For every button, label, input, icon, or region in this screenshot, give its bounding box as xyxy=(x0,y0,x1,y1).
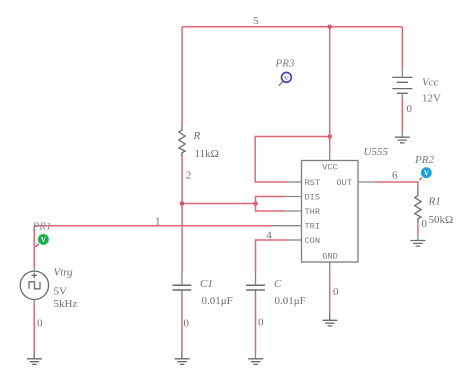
probe PR2 xyxy=(419,167,431,180)
wire source top xyxy=(33,226,35,267)
svg-text:50kΩ: 50kΩ xyxy=(429,214,454,226)
wire Vtrg bottom xyxy=(33,300,35,305)
ground under C xyxy=(248,359,263,365)
capacitor C1 xyxy=(173,272,192,295)
ground under chip xyxy=(322,314,337,326)
svg-text:12V: 12V xyxy=(422,93,441,105)
svg-text:PR2: PR2 xyxy=(414,154,434,166)
svg-text:1: 1 xyxy=(155,216,161,228)
wire VCC vertical xyxy=(329,27,331,151)
svg-text:0: 0 xyxy=(333,286,339,298)
svg-text:CON: CON xyxy=(305,236,320,246)
wire C bottom xyxy=(255,295,257,353)
pin VCC stub xyxy=(329,151,331,161)
svg-text:PR3: PR3 xyxy=(275,58,295,70)
pin RST stub xyxy=(286,181,302,183)
svg-text:0: 0 xyxy=(422,218,428,230)
svg-text:C1: C1 xyxy=(200,278,213,290)
wire battery bottom xyxy=(401,93,403,98)
wire DIS-THR tie xyxy=(256,197,285,212)
svg-text:5kHz: 5kHz xyxy=(54,298,78,310)
svg-text:DIS: DIS xyxy=(305,192,320,202)
svg-text:5V: 5V xyxy=(54,286,68,298)
wire C1 bottom xyxy=(181,295,183,353)
pin DIS stub xyxy=(284,196,302,198)
resistor R xyxy=(179,126,185,157)
svg-text:4: 4 xyxy=(266,230,272,242)
svg-text:RST: RST xyxy=(305,178,320,188)
svg-text:Vcc: Vcc xyxy=(422,77,439,89)
ground under battery xyxy=(395,137,410,143)
probe PR1 xyxy=(35,233,50,247)
svg-text:0: 0 xyxy=(184,318,190,330)
svg-text:U555: U555 xyxy=(364,146,389,158)
junction net5 top xyxy=(327,25,332,30)
ground under C1 xyxy=(175,352,190,364)
svg-text:VCC: VCC xyxy=(322,163,337,173)
wire chip GND to ground xyxy=(329,272,331,315)
pin TRI stub xyxy=(272,225,302,227)
svg-text:11kΩ: 11kΩ xyxy=(195,148,219,160)
capacitor C xyxy=(246,272,265,295)
svg-text:5: 5 xyxy=(253,15,259,27)
svg-text:OUT: OUT xyxy=(337,178,352,188)
probe PR3 xyxy=(279,72,292,85)
wire CON branch xyxy=(256,240,288,272)
wire node2 down to C1 xyxy=(181,204,183,273)
svg-text:0.01μF: 0.01μF xyxy=(275,295,306,307)
pin OUT stub xyxy=(358,181,375,183)
pin CON stub xyxy=(286,239,302,241)
svg-text:2: 2 xyxy=(186,170,192,182)
wire R1 to ground xyxy=(417,223,419,234)
svg-text:R1: R1 xyxy=(428,196,441,208)
svg-text:THR: THR xyxy=(305,207,320,217)
svg-text:V: V xyxy=(41,236,47,244)
wire battery top xyxy=(401,27,403,68)
svg-text:TRI: TRI xyxy=(305,221,320,231)
junction node2 left xyxy=(180,201,185,206)
wire RST branch xyxy=(255,137,330,183)
wire left vertical to resistor R xyxy=(181,27,183,126)
svg-text:V: V xyxy=(424,169,430,177)
svg-text:R: R xyxy=(193,130,201,142)
voltage source Vtrg xyxy=(20,271,48,299)
svg-text:PR1: PR1 xyxy=(32,221,52,233)
wire below R to node2 junction xyxy=(181,157,183,204)
voltage source Vcc battery xyxy=(392,77,412,93)
svg-text:0: 0 xyxy=(407,103,413,115)
resistor R1 xyxy=(415,187,421,223)
wire net1 from source to TRI xyxy=(34,225,271,227)
junction node2 right xyxy=(253,201,258,206)
svg-text:0: 0 xyxy=(37,318,43,330)
wire net5 top horizontal xyxy=(182,26,402,28)
svg-text:C: C xyxy=(274,278,282,290)
svg-text:0.01μF: 0.01μF xyxy=(202,295,233,307)
pin THR stub xyxy=(284,210,302,212)
wire node2 horizontal xyxy=(182,203,256,205)
svg-text:0: 0 xyxy=(258,317,264,329)
svg-text:Vtrg: Vtrg xyxy=(54,267,74,279)
ground under R1 xyxy=(410,241,425,247)
svg-text:6: 6 xyxy=(392,170,398,182)
ground under Vtrg xyxy=(27,352,42,364)
op-amp U555 chip body xyxy=(302,161,359,263)
pin GND stub xyxy=(329,262,331,272)
svg-text:GND: GND xyxy=(322,252,337,262)
junction VCC branch xyxy=(327,134,332,139)
svg-text:V: V xyxy=(284,75,289,82)
wire OUT to R1 xyxy=(375,182,418,188)
